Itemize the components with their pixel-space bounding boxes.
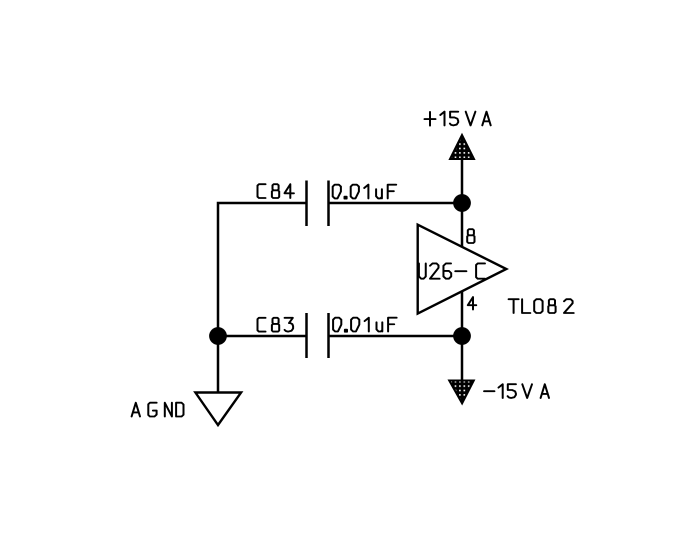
wire top horizontal right (C84 right plate to +15VA net junction) xyxy=(329,202,463,205)
value label 0.01uF (C83) xyxy=(333,318,397,332)
label -15VA xyxy=(484,384,549,398)
capacitor C83 plates xyxy=(307,313,329,358)
capacitor C84 plates xyxy=(307,181,329,227)
wire bottom horizontal left (AGND junction to C83 left plate) xyxy=(218,335,307,338)
label AGND xyxy=(132,403,184,417)
pin number 4 xyxy=(468,297,476,309)
wire AGND net: left vertical from AGND up to corner, then top horizontal to C84 left plate xyxy=(218,203,307,392)
wire bottom horizontal right (C83 right plate to -15VA net junction) xyxy=(329,335,463,338)
label +15VA xyxy=(425,112,491,126)
power symbol +15VA triangle xyxy=(450,135,474,159)
label C83 xyxy=(258,318,294,332)
op-amp U26-C triangle xyxy=(418,225,507,314)
junction dot bottom right xyxy=(453,327,471,345)
junction dot bottom left xyxy=(209,327,227,345)
value label 0.01uF (C84) xyxy=(333,185,397,199)
label C84 xyxy=(258,184,294,198)
part label TL082 xyxy=(509,299,574,313)
wire +15VA vertical to op-amp pin 8 xyxy=(461,158,464,247)
pin number 8 xyxy=(467,229,474,243)
power symbol -15VA triangle xyxy=(449,381,474,404)
wire op-amp pin 4 vertical to -15VA xyxy=(461,292,464,382)
label U26-C xyxy=(419,263,485,278)
junction dot top right xyxy=(453,194,471,212)
ground symbol AGND triangle xyxy=(195,393,241,426)
